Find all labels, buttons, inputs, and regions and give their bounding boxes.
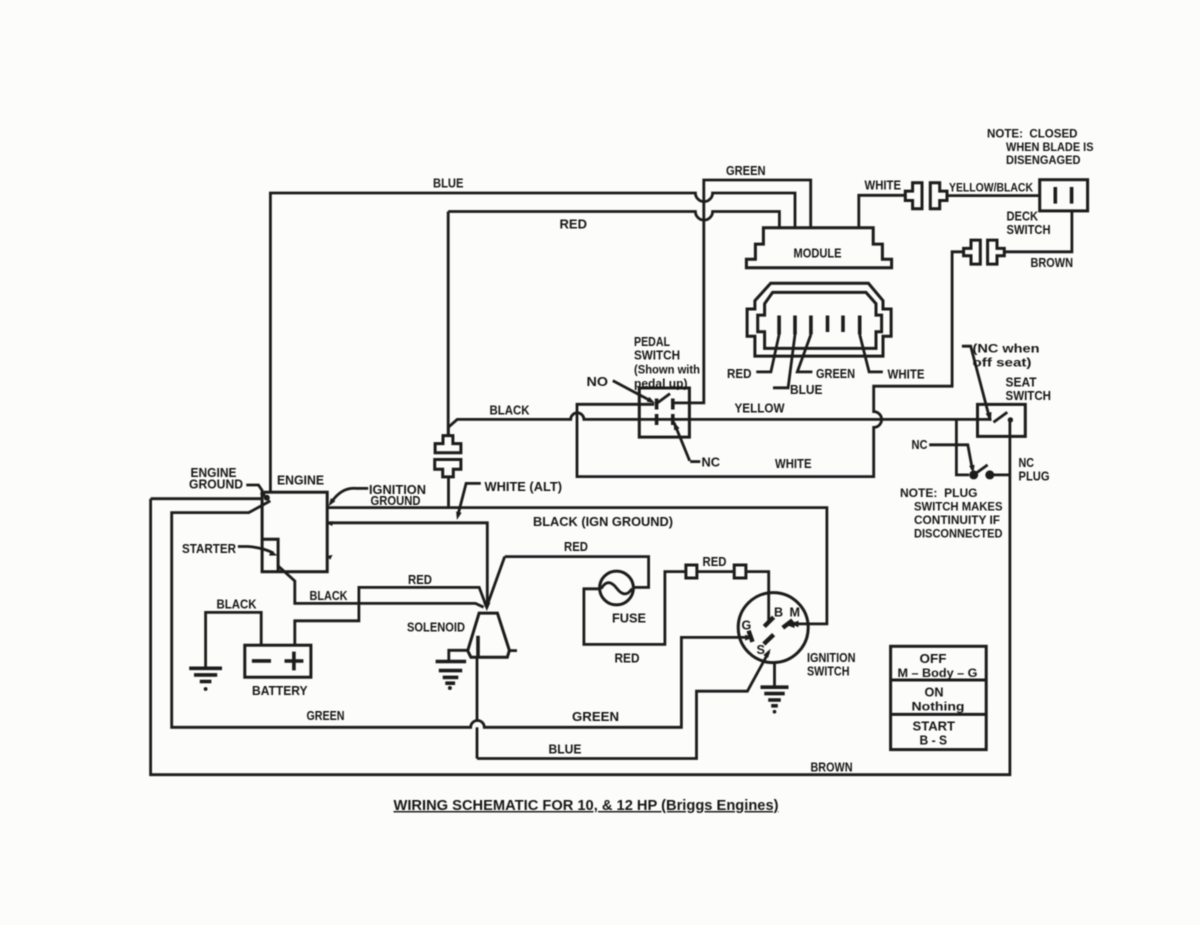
svg-text:RED: RED (615, 652, 640, 666)
connector pin 4 (826, 316, 830, 333)
deck switch box (1040, 180, 1088, 211)
leader NC seat (929, 445, 972, 470)
svg-text:WHITE: WHITE (888, 368, 925, 382)
pedal switch box (639, 388, 689, 437)
svg-text:SOLENOID: SOLENOID (407, 621, 465, 635)
wire NC plug link (994, 473, 1010, 476)
battery ground (189, 666, 222, 670)
wire BLACK ign ground bus (327, 508, 827, 624)
leader GREEN pin (797, 335, 812, 372)
svg-text:NC: NC (912, 438, 928, 452)
ignition G wire arrowhead (745, 635, 752, 641)
NC plug blade (974, 465, 988, 475)
svg-text:IGNITION: IGNITION (807, 651, 856, 665)
wire WHITE(ALT) riser (447, 212, 450, 436)
svg-text:NOTE: PLUG: NOTE: PLUG (900, 486, 978, 500)
connector pin 5 (841, 316, 845, 333)
svg-text:BLUE: BLUE (549, 743, 582, 757)
svg-text:ENGINE: ENGINE (277, 474, 324, 488)
pedal terminal top-left (655, 399, 659, 410)
wire solenoid plunger riser upper (476, 657, 479, 720)
NC plug right dot (985, 470, 994, 479)
solenoid ground (436, 660, 467, 664)
svg-text:RED: RED (703, 555, 727, 569)
svg-text:(Shown with: (Shown with (634, 363, 700, 377)
pedal terminal bottom-right (671, 414, 675, 425)
wire YELLOW/BLACK connector-to-deck-switch (947, 194, 1040, 197)
svg-text:BLACK: BLACK (310, 589, 348, 603)
wire RED fuse loop top (505, 557, 649, 588)
wire GREEN module-to-pedal (671, 180, 811, 403)
starter box (262, 539, 278, 572)
wire WHITE module-to-connector (859, 195, 906, 228)
wire alt connector to engine bus (447, 477, 450, 508)
ignition B blade (764, 617, 773, 626)
battery box (245, 645, 311, 677)
svg-text:FUSE: FUSE (612, 612, 646, 626)
connector pair brown right half (988, 240, 1005, 264)
leader RED pin (756, 335, 779, 372)
svg-text:DISENGAGED: DISENGAGED (1006, 153, 1081, 167)
connector pair brown left half (964, 240, 981, 264)
svg-text:MODULE: MODULE (794, 247, 842, 261)
svg-text:NOTE: CLOSED: NOTE: CLOSED (987, 127, 1078, 141)
svg-text:off seat): off seat) (973, 356, 1032, 370)
svg-text:GREEN: GREEN (816, 367, 855, 381)
leader BLUE pin (773, 335, 795, 388)
engine edge mark 1 (327, 521, 333, 526)
svg-text:START: START (913, 720, 956, 734)
wire RED battery-to-solenoid (295, 587, 486, 645)
module body (746, 228, 891, 268)
solenoid right terminal (509, 649, 517, 652)
svg-text:WHEN BLADE IS: WHEN BLADE IS (1006, 140, 1094, 154)
ignition G blade (749, 631, 753, 642)
svg-text:SWITCH: SWITCH (1007, 223, 1051, 237)
svg-text:M: M (790, 606, 801, 620)
svg-text:SEAT: SEAT (1006, 376, 1037, 390)
svg-text:SWITCH MAKES: SWITCH MAKES (914, 500, 1003, 514)
terminal block 2 (734, 565, 746, 578)
svg-text:BATTERY: BATTERY (252, 684, 308, 698)
solenoid left terminal (449, 650, 468, 660)
ignition ground stem (773, 663, 776, 687)
svg-text:WHITE (ALT): WHITE (ALT) (485, 480, 563, 494)
wire NC plug drop (956, 419, 969, 475)
svg-text:RED: RED (564, 540, 588, 554)
svg-text:CONTINUITY IF: CONTINUITY IF (914, 513, 1000, 527)
svg-text:BLUE: BLUE (790, 383, 823, 397)
wire GREEN ignition-to-engine (172, 501, 747, 727)
svg-text:pedal up): pedal up) (634, 377, 688, 391)
svg-text:WHITE: WHITE (865, 179, 902, 193)
connector pin 1 (777, 316, 781, 335)
wire RED fuse-to-solenoid (487, 557, 505, 607)
NC plug left dot (969, 470, 978, 479)
svg-text:GROUND: GROUND (371, 494, 421, 508)
pedal terminal bottom-left (655, 414, 659, 425)
connector pair alt bottom half (435, 460, 461, 477)
battery minus symbol (252, 659, 271, 663)
svg-text:SWITCH: SWITCH (634, 349, 680, 363)
seat switch contact dot (1008, 417, 1013, 422)
svg-text:BROWN: BROWN (811, 761, 853, 775)
wire BLACK battery negative (206, 612, 262, 667)
wire BLUE solenoid-to-ignition-S (477, 652, 769, 759)
module connector outer shell (747, 283, 891, 356)
svg-text:OFF: OFF (920, 652, 947, 666)
leader STARTER (238, 547, 274, 554)
connector pin 6 (858, 316, 862, 335)
svg-text:NO: NO (587, 375, 609, 389)
leader NC-when-off-seat (962, 346, 990, 418)
ignition S blade (764, 635, 774, 644)
svg-text:ON: ON (925, 686, 944, 700)
solenoid body (468, 613, 510, 657)
wire deck switch to brown connector (1004, 211, 1072, 252)
leader ENGINE GROUND (246, 485, 262, 491)
ignition switch circle (738, 593, 808, 663)
leader IGNITION GROUND (332, 488, 369, 502)
deck switch prong 2 (1070, 187, 1074, 204)
fuse sine symbol (601, 583, 632, 594)
svg-text:GREEN: GREEN (572, 710, 619, 724)
wire engine-to-solenoid (327, 523, 487, 604)
svg-text:YELLOW/BLACK: YELLOW/BLACK (949, 181, 1033, 195)
deck switch prong 1 (1054, 187, 1058, 204)
svg-text:WIRING SCHEMATIC FOR 10, & 12: WIRING SCHEMATIC FOR 10, & 12 HP (Briggs… (394, 798, 779, 814)
svg-text:NC: NC (1019, 456, 1035, 470)
svg-text:BLACK: BLACK (490, 404, 530, 418)
svg-text:B - S: B - S (920, 734, 948, 748)
ignition M blade (783, 620, 793, 628)
connector pair white/yellow-black left half (905, 183, 922, 209)
engine edge mark 2 (327, 555, 333, 560)
svg-text:RED: RED (727, 367, 752, 381)
svg-text:(NC when: (NC when (973, 342, 1040, 356)
svg-text:Nothing: Nothing (912, 700, 965, 714)
svg-text:B: B (774, 606, 783, 620)
svg-text:SWITCH: SWITCH (807, 665, 850, 679)
connector pin 3 (809, 316, 813, 335)
leader NO (613, 381, 652, 402)
wire BLUE engine-to-module (270, 193, 795, 492)
svg-text:YELLOW: YELLOW (735, 402, 785, 416)
solenoid plunger (476, 636, 480, 658)
wire BLACK alt-to-pedal (448, 413, 991, 436)
wire RED alt-to-module (448, 212, 779, 229)
seat switch blade (994, 412, 1008, 422)
svg-text:DECK: DECK (1007, 210, 1039, 224)
svg-text:GREEN: GREEN (726, 164, 766, 178)
wire RED fuse loop bottom (584, 572, 686, 645)
wire WHITE pedal-to-brown-connector (577, 252, 964, 477)
svg-text:NC: NC (702, 456, 721, 470)
svg-text:STARTER: STARTER (182, 542, 236, 556)
legend table box (891, 646, 987, 749)
svg-text:GROUND: GROUND (189, 478, 243, 492)
svg-text:PLUG: PLUG (1019, 470, 1050, 484)
seat switch box (978, 404, 1026, 436)
connector pin 2 (793, 316, 797, 335)
svg-text:GREEN: GREEN (307, 709, 345, 723)
svg-text:BLACK: BLACK (217, 598, 257, 612)
leader WHITE pin (860, 335, 883, 372)
svg-text:BLUE: BLUE (433, 177, 464, 191)
wire between terminal blocks (697, 570, 734, 573)
ignition ground bars (761, 685, 789, 689)
wire RED to ignition B (746, 572, 769, 621)
svg-text:WHITE: WHITE (775, 457, 812, 471)
svg-text:RED: RED (408, 573, 432, 587)
legend divider 1 (891, 679, 987, 682)
module connector inner shell (758, 292, 882, 348)
battery plus symbol (285, 652, 304, 671)
wire BROWN outer loop (151, 420, 1010, 775)
engine box (262, 492, 327, 572)
svg-text:SWITCH: SWITCH (1006, 389, 1052, 403)
svg-text:M – Body – G: M – Body – G (898, 666, 978, 680)
connector pair alt top half (435, 436, 461, 453)
leader WHITE (ALT) (458, 483, 481, 516)
leader NC pedal (674, 423, 690, 461)
connector pair white/yellow-black right half (930, 183, 947, 209)
wire BLACK starter-to-solenoid (279, 566, 484, 607)
terminal block 1 (686, 565, 697, 578)
legend divider 2 (891, 713, 987, 716)
svg-text:RED: RED (560, 218, 588, 232)
svg-text:DISCONNECTED: DISCONNECTED (914, 527, 1003, 541)
wire solenoid plunger riser lower (476, 727, 479, 758)
fuse circle (600, 571, 634, 605)
svg-text:BROWN: BROWN (1031, 256, 1074, 270)
svg-text:BLACK (IGN GROUND): BLACK (IGN GROUND) (533, 515, 673, 529)
pedal terminal top-right (671, 399, 675, 410)
pedal switch blade (657, 394, 670, 404)
solenoid feed arrowhead (483, 603, 490, 611)
svg-text:PEDAL: PEDAL (634, 335, 670, 349)
